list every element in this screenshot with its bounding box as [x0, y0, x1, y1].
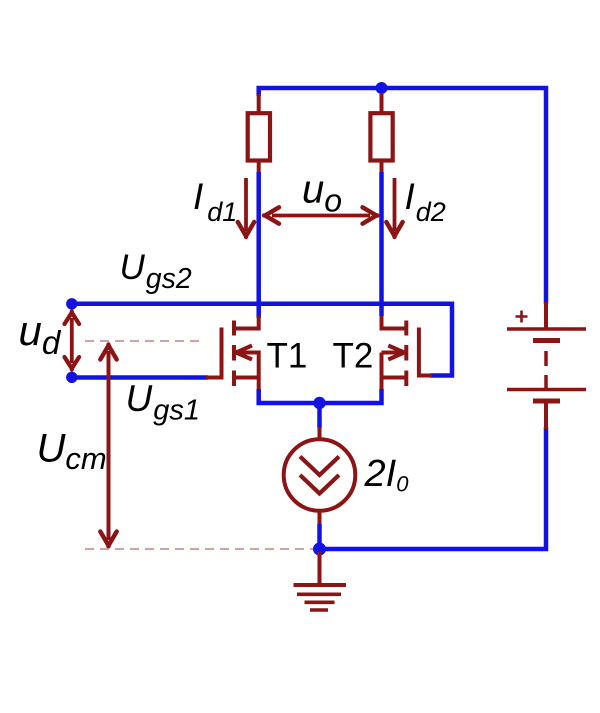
channel segment top: [232, 321, 236, 336]
wire bottom return to battery (blue): [320, 427, 547, 549]
resistor R2 (right drain resistor): [370, 113, 392, 160]
dashed reference line (lower, at ground node level): [85, 548, 313, 550]
gate wire + gate bar: [206, 328, 222, 378]
wire common source bus (blue): [259, 389, 382, 403]
wire lead below resistor R1 (dark red): [257, 163, 261, 175]
current source 2I0 (circle with double chevron): [284, 439, 356, 511]
node junction dot at top of right resistor: [376, 82, 388, 94]
svg-text:2I0: 2I0: [364, 453, 410, 497]
wire lead from bus into resistor R1 (dark red): [257, 94, 261, 112]
wire lead below resistor R2 (dark red): [380, 163, 384, 175]
svg-text:T1: T1: [267, 337, 308, 376]
dashed middle link: [544, 351, 548, 366]
channel segment middle: [404, 345, 408, 361]
drain stub: [382, 316, 407, 329]
svg-text:T2: T2: [333, 337, 374, 376]
arrow uo (double headed horizontal): [272, 214, 370, 218]
svg-text:Ugs2: Ugs2: [120, 248, 192, 295]
wire drain line of T2 (blue vertical): [379, 172, 384, 316]
arrow ud (double headed vertical between input dots): [70, 318, 74, 363]
battery (multi-cell): [507, 302, 586, 429]
svg-text:Id2: Id2: [405, 176, 446, 227]
arrow Id1 (down): [244, 178, 248, 231]
svg-text:uo: uo: [302, 168, 342, 219]
dashed reference line (upper, between input dots): [85, 340, 200, 342]
ground symbol: [294, 552, 347, 610]
wire top supply bus (blue): [259, 88, 546, 304]
wire Ugs2 gate line of T2 (blue): [72, 304, 452, 376]
node input terminal lower (blue dot): [66, 372, 77, 383]
gate bar + gate wire: [419, 328, 432, 376]
resistor R1 (left drain resistor): [248, 113, 270, 160]
channel segment top: [404, 321, 408, 336]
label + (battery positive): [516, 311, 528, 323]
wire from current source down to ground node (dark red then blue): [318, 511, 322, 525]
plate short lower: [533, 399, 560, 404]
body line with arrow to channel: [382, 353, 401, 393]
source stub: [234, 376, 259, 380]
arrow Ucm (double headed vertical): [107, 351, 111, 540]
wire lead from bus into resistor R2 (dark red): [380, 94, 384, 112]
plate long lower: [507, 388, 586, 392]
channel segment middle: [232, 345, 236, 361]
top lead: [544, 302, 548, 329]
svg-text:ud: ud: [19, 307, 62, 361]
node common source junction dot: [313, 397, 325, 409]
svg-text:Ucm: Ucm: [37, 427, 107, 477]
transistor T2 (n-channel MOSFET, right, mirrored): [382, 316, 433, 392]
plate short upper: [533, 338, 560, 343]
source stub: [382, 376, 407, 380]
svg-text:Ugs1: Ugs1: [126, 378, 201, 427]
arrow Id2 (down): [393, 178, 397, 231]
drain stub: [234, 316, 259, 329]
channel segment bottom: [232, 371, 236, 387]
svg-text:Id1: Id1: [193, 176, 237, 227]
wire drain line of T1 (blue vertical): [256, 172, 261, 318]
wire from source node down to current source (blue then dark red): [317, 403, 322, 428]
node input terminal upper (blue dot): [66, 298, 77, 309]
channel segment bottom: [404, 371, 408, 387]
plate long upper: [507, 327, 586, 331]
lead into lower cell: [544, 375, 548, 389]
body line with arrow to channel: [240, 353, 259, 393]
transistor T1 (n-channel MOSFET, left): [206, 316, 259, 392]
wire Ugs1 gate line of T1 (blue): [72, 375, 208, 380]
node ground junction dot: [313, 543, 326, 556]
bottom lead: [544, 401, 548, 429]
